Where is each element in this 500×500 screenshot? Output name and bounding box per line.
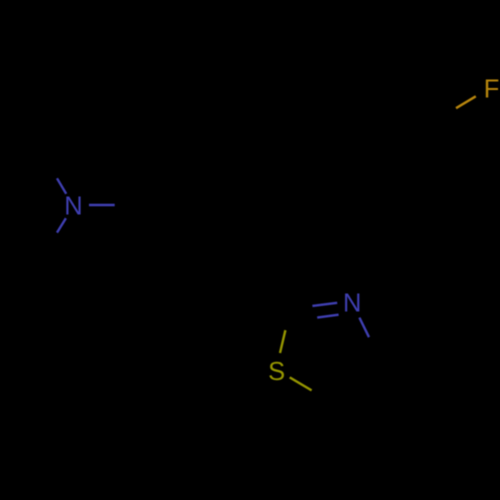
- svg-text:N: N: [64, 193, 82, 221]
- bond N3-C4 (N half): [359, 318, 369, 338]
- bond N1-C aryl (N half): [89, 204, 115, 207]
- svg-text:F: F: [484, 75, 500, 103]
- double bond C2=N3 outer line (N half): [312, 303, 337, 306]
- bond S1-C2 (S half): [280, 330, 285, 353]
- bond N1-CH3 lower methyl (N half): [57, 218, 66, 232]
- svg-text:N: N: [343, 290, 361, 318]
- svg-text:S: S: [268, 358, 285, 386]
- bond N1-CH3 upper methyl (N half): [57, 178, 66, 194]
- double bond C2=N3 inner line (N half): [317, 315, 338, 318]
- bond F-C (F half): [456, 96, 476, 108]
- bond S1-C5 (S half): [290, 377, 312, 390]
